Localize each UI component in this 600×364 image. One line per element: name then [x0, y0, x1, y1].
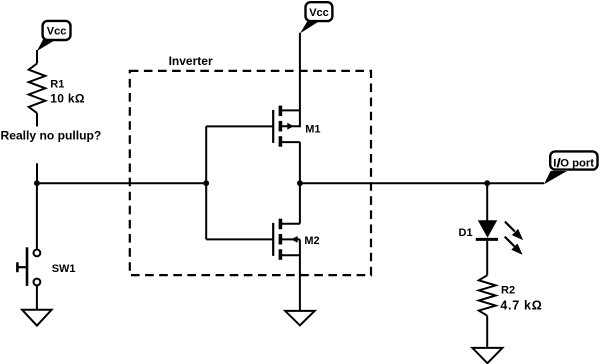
wire: gate wire M1 [206, 125, 273, 127]
power flag Vcc (left, feeding R1) [37, 21, 71, 51]
bulk tap with arrow [281, 125, 300, 127]
channel segment middle [279, 121, 283, 131]
ground (below SW1) [22, 310, 51, 326]
bulk tap with arrow [281, 238, 300, 240]
node: output junction [297, 180, 303, 186]
svg-text:Vcc: Vcc [309, 7, 329, 19]
svg-text:Vcc: Vcc [47, 26, 67, 38]
channel segment middle [279, 234, 283, 245]
LED D1 [476, 220, 498, 275]
channel segment bottom [279, 136, 283, 147]
gate bar [272, 223, 274, 256]
source tap (to Vcc) [281, 109, 300, 111]
wire: gate node vertical [205, 126, 207, 239]
wire: output node down to M2 drain [299, 183, 301, 224]
svg-text:10 kΩ: 10 kΩ [50, 91, 85, 105]
LED emission arrow 1 [505, 222, 523, 241]
transistor M1 (PMOS) [273, 106, 300, 184]
drain tap (to output) [281, 141, 300, 143]
svg-text:M1: M1 [305, 124, 320, 136]
svg-text:4.7 kΩ: 4.7 kΩ [500, 298, 542, 312]
wire: junction down to LED anode [486, 183, 488, 220]
svg-text:O port: O port [560, 158, 594, 170]
source tap (to ground) [281, 254, 300, 256]
wire: left junction to gate node [37, 182, 206, 184]
dashed enclosure: Inverter [130, 71, 371, 275]
svg-text:R2: R2 [501, 285, 515, 297]
transistor M2 (NMOS) [273, 183, 300, 311]
channel segment top [279, 219, 283, 230]
node: left junction (switch / gate net) [34, 180, 40, 186]
pushbutton SW1 [17, 247, 40, 286]
svg-text:Really no pullup?: Really no pullup? [1, 128, 102, 142]
svg-text:Inverter: Inverter [169, 54, 213, 68]
ground (below R2) [472, 348, 502, 363]
wire: gate wire M2 [206, 238, 273, 240]
svg-text:M2: M2 [304, 235, 319, 247]
channel segment top [279, 106, 283, 117]
drain tap (from output) [281, 223, 300, 225]
gate bar [272, 110, 274, 143]
wire: Vcc flag to R1 top [36, 50, 38, 64]
wire: left junction down to SW1 [36, 183, 38, 250]
node: LED branch junction [484, 180, 490, 186]
svg-text:R1: R1 [50, 78, 64, 90]
power flag Vcc (top middle, feeding M1) [300, 2, 332, 33]
wire: stub above left junction [36, 163, 38, 184]
wire: output to LED branch and I/O port [300, 182, 544, 184]
channel segment bottom [279, 249, 283, 259]
wire: Vcc to M1 source/bulk [299, 33, 301, 127]
net flag I/O port [544, 151, 598, 184]
svg-text:D1: D1 [459, 227, 473, 239]
resistor R2 [479, 275, 496, 348]
svg-text:I: I [553, 158, 556, 170]
LED emission arrow 2 [505, 237, 523, 255]
resistor R1 [29, 64, 46, 127]
node: gate junction [203, 180, 209, 186]
ground (below M2) [285, 311, 315, 326]
wire: SW1 to ground [36, 286, 38, 310]
svg-text:SW1: SW1 [52, 263, 76, 275]
